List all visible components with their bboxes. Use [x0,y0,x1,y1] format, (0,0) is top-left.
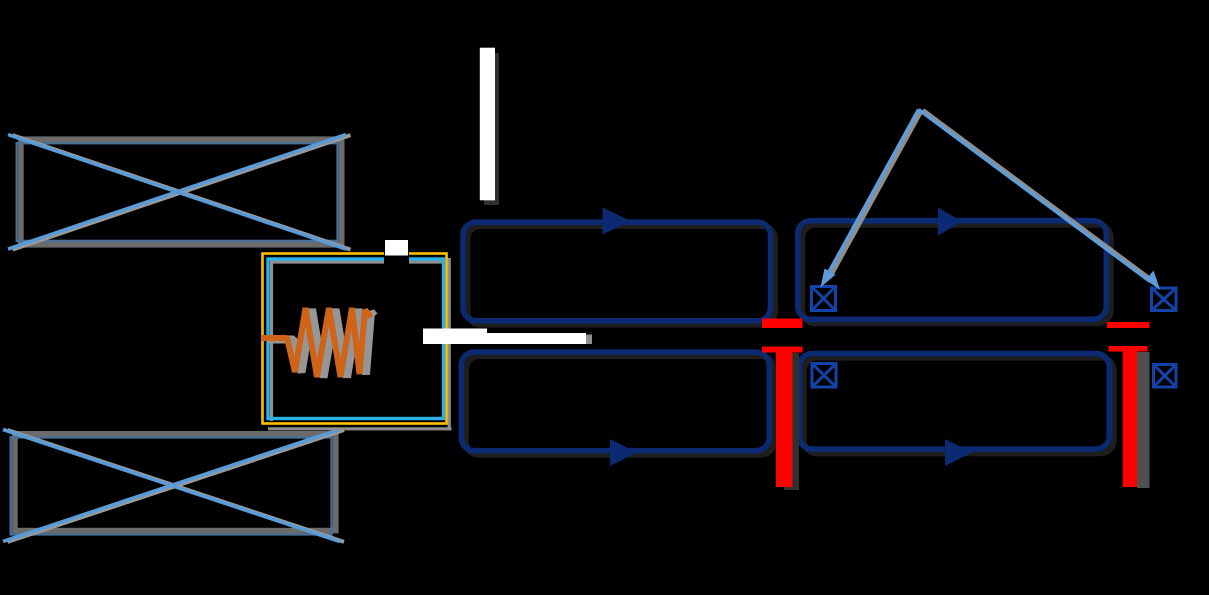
loop 1 arrow [603,208,631,235]
RF drive box cyan border [268,259,444,419]
white port top of box [385,240,408,256]
resistor R [261,308,371,377]
loop 3 arrow [610,439,637,466]
field-into-page symbol B [1152,288,1177,311]
current loop 1 (top-left) [463,222,771,321]
gap electrode 2 top plate (red) [1107,322,1150,328]
white marker bar top shadow [484,53,499,205]
resistor R shadow [268,309,375,378]
field-into-page symbol C [812,364,836,388]
gap electrode 2 bottom T (red) [1109,346,1148,352]
loop 2 arrow [938,208,962,236]
gap electrode 1 top plate (red) [762,319,803,329]
electrode shadows [784,353,799,490]
RF drive box shadow [268,258,452,430]
quadrupole magnet bottom (crossed box) [3,430,344,542]
beam line (white) [423,329,586,345]
current loop 3 (bottom-left) [461,352,769,451]
field arrow shadows [830,110,1155,282]
port gap in top border [384,250,409,264]
loop 4 arrow [945,439,972,466]
loop shadows [466,225,1114,455]
field-into-page symbol D [1154,365,1177,388]
field arrow left (light blue) [828,110,919,275]
white marker bar top [480,48,495,201]
current loop 4 (bottom-right) [799,354,1109,450]
current loop 2 (top-right) [798,221,1107,320]
gap electrode 1 bottom T (red) [762,347,803,353]
field-into-page symbol A [812,287,836,311]
quadrupole magnet top (crossed box) [8,135,351,250]
field arrow right (light blue) [919,110,1151,282]
RF drive box yellow border [263,254,447,424]
beam line shadow stub [586,335,593,345]
